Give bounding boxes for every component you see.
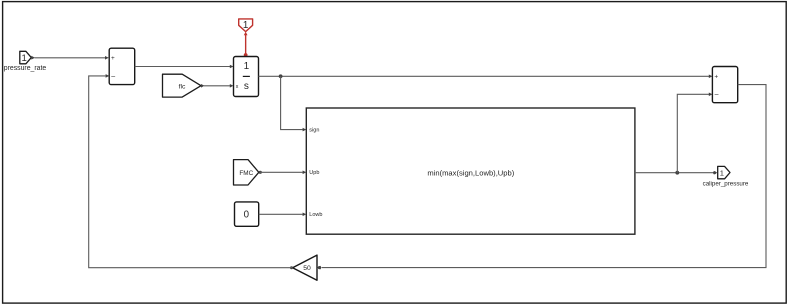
svg-text:50: 50 (303, 265, 311, 272)
svg-text:x: x (236, 84, 239, 90)
svg-text:–: – (715, 92, 719, 99)
wire: gain output to Sum1 minus input (89, 74, 293, 269)
svg-text:sign: sign (309, 128, 319, 134)
svg-text:caliper_pressure: caliper_pressure (703, 181, 749, 188)
wire: integrator state port to red outport (red) (244, 32, 248, 57)
wire: FMC to Upb input (259, 171, 307, 175)
svg-text:flc: flc (179, 83, 186, 90)
svg-text:+: + (111, 55, 115, 62)
svg-text:FMC: FMC (239, 170, 253, 177)
wire: MinMax output to outport caliper_pressure (635, 171, 718, 175)
wire: junction up to Sum2 minus input (677, 93, 712, 173)
junction on output wire (675, 171, 679, 175)
wire: Sum2 output feedback down to gain input (317, 85, 766, 270)
svg-text:0: 0 (244, 209, 250, 220)
outport 1 (red, state port tag) (239, 19, 253, 32)
outport 1 caliper_pressure (703, 166, 749, 187)
sum block Sum2 (712, 67, 737, 103)
constant block 0 (235, 202, 259, 226)
from tag FMC (234, 160, 259, 185)
sum block Sum1 (109, 48, 135, 84)
wire: integrator output to Sum2 plus input (259, 75, 713, 79)
svg-text:1: 1 (244, 61, 250, 72)
wire: Sum1 output to Integrator input 1 (135, 65, 234, 69)
wire: pressure_rate to Sum1 plus input (31, 56, 108, 60)
svg-text:1: 1 (243, 20, 248, 31)
wire: junction down to sign input of MinMax block (281, 76, 307, 131)
saturation block min(max(sign,Lowb),Upb) (306, 108, 635, 234)
wire: flc to Integrator input 2 (201, 84, 233, 88)
svg-text:min(max(sign,Lowb),Upb): min(max(sign,Lowb),Upb) (427, 168, 514, 177)
junction on integrator output wire (279, 74, 283, 78)
svg-text:1: 1 (720, 168, 724, 177)
svg-text:1: 1 (22, 53, 27, 64)
svg-text:s: s (244, 81, 249, 92)
svg-text:Lowb: Lowb (309, 212, 322, 218)
svg-text:+: + (714, 74, 718, 81)
wire: constant 0 to Lowb input (259, 213, 307, 217)
svg-text:pressure_rate: pressure_rate (4, 65, 47, 72)
svg-text:Upb: Upb (309, 170, 319, 176)
goto tag flc (163, 74, 202, 97)
gain block 50 (pointing left) (293, 255, 317, 280)
inport 1 pressure_rate (4, 51, 47, 72)
svg-text:–: – (111, 73, 115, 80)
integrator block 1/s (234, 57, 259, 97)
